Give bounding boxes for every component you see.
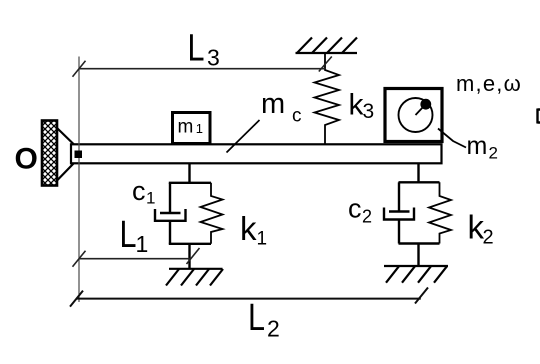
- leader line m_c to beam: [227, 120, 260, 153]
- svg-text:c: c: [292, 106, 302, 127]
- svg-text:O: O: [15, 143, 38, 176]
- svg-text:m,e,ω: m,e,ω: [456, 71, 522, 96]
- svg-text:c: c: [132, 176, 146, 206]
- dimension line L3: [73, 57, 332, 77]
- label k3: [349, 89, 375, 124]
- mass m1 box: [173, 113, 211, 144]
- svg-text:m: m: [467, 132, 488, 160]
- label m1: [178, 117, 204, 138]
- wall clamp bracket: [57, 128, 74, 181]
- svg-text:1: 1: [196, 121, 203, 136]
- svg-text:L: L: [120, 214, 137, 256]
- svg-text:1: 1: [257, 229, 268, 250]
- right suspension lower stem: [417, 244, 419, 267]
- svg-text:m: m: [261, 88, 285, 120]
- label m2: [467, 132, 498, 163]
- svg-text:2: 2: [483, 227, 494, 249]
- dimension line L1: [73, 248, 200, 267]
- label c2: [348, 194, 372, 227]
- right edge fragment: [538, 109, 540, 124]
- svg-text:c: c: [348, 194, 362, 224]
- dimension extension line at O: [78, 57, 80, 303]
- left suspension lower stem: [188, 244, 190, 269]
- fixed wall support: [42, 121, 57, 186]
- svg-text:1: 1: [136, 231, 149, 257]
- left suspension stem: [188, 163, 190, 182]
- spring k3: [315, 53, 340, 145]
- damper c1: [155, 183, 186, 244]
- label k1: [240, 210, 267, 250]
- ceiling support: [296, 38, 358, 54]
- damper c2: [384, 182, 414, 243]
- svg-text:k: k: [240, 210, 257, 247]
- svg-text:2: 2: [267, 316, 280, 342]
- leader line to m2 label: [438, 129, 466, 148]
- label m_c: [261, 88, 302, 127]
- beam m_c: [71, 144, 442, 163]
- right suspension bottom bar: [399, 242, 440, 244]
- right suspension stem: [417, 163, 419, 182]
- svg-text:3: 3: [363, 100, 375, 123]
- right suspension top bar: [399, 181, 440, 183]
- label c1: [132, 176, 155, 208]
- left suspension top bar: [169, 182, 211, 184]
- label L2: [248, 297, 280, 342]
- svg-text:1: 1: [146, 189, 155, 208]
- pivot at O: [75, 151, 83, 159]
- label L3: [188, 28, 220, 71]
- label L1: [120, 214, 149, 257]
- svg-text:3: 3: [207, 45, 220, 71]
- spring k1: [201, 183, 223, 244]
- svg-text:2: 2: [362, 207, 372, 227]
- rotor circle: [399, 98, 433, 132]
- left suspension bottom bar: [169, 243, 211, 245]
- spring k2: [429, 182, 451, 243]
- mass m2 box: [385, 89, 442, 142]
- ground under k1: [166, 269, 223, 286]
- ground under k2: [384, 266, 448, 283]
- svg-text:L: L: [188, 28, 205, 70]
- svg-text:2: 2: [489, 144, 498, 163]
- svg-text:m: m: [178, 117, 194, 138]
- label k2: [468, 209, 494, 249]
- rotor radius line: [416, 106, 425, 115]
- eccentric mass dot: [420, 99, 431, 110]
- svg-text:L: L: [248, 297, 265, 339]
- dimension line L2: [70, 288, 428, 307]
